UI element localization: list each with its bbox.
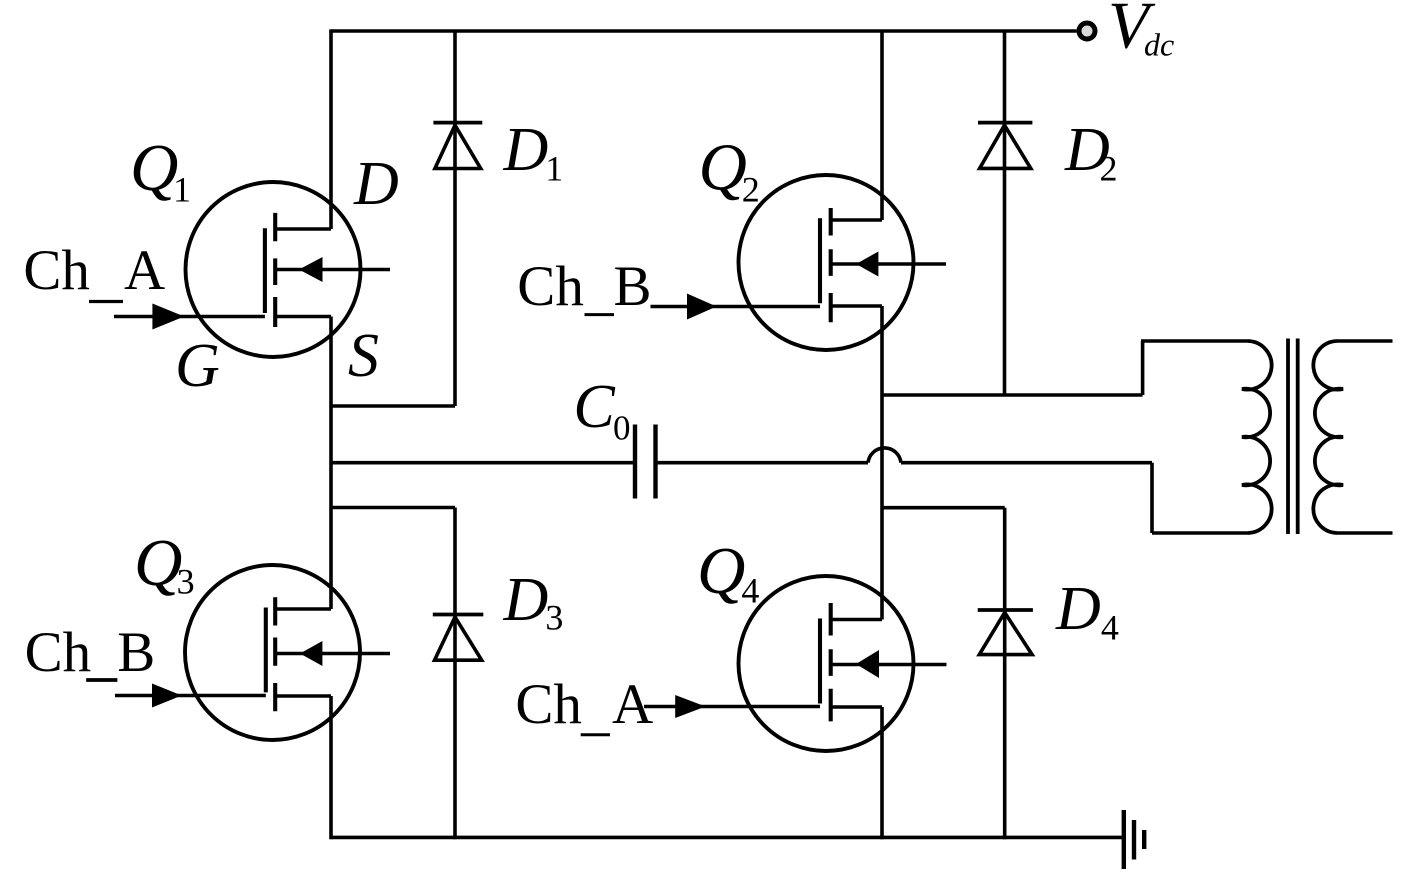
node label Ch_A bottom underscore — [581, 733, 610, 736]
diode D1 triangle — [435, 125, 481, 168]
arrow Ch_A input bottom — [675, 695, 705, 718]
wire bottom rail — [331, 836, 1124, 840]
ground bar 1 — [1122, 810, 1126, 869]
transformer secondary winding — [1313, 341, 1343, 533]
wire D2 branch — [1003, 31, 1007, 395]
wire Q1 gate lead Ch_A — [114, 315, 265, 319]
wire C0 left — [331, 461, 635, 465]
arrow Ch_A input — [152, 304, 184, 330]
svg-text:A: A — [124, 239, 165, 302]
transistor Q2 circle — [739, 175, 914, 350]
wire D3 branch — [453, 508, 457, 840]
transformer core line left — [1286, 339, 1290, 535]
transistor Q2 body lead — [831, 262, 946, 266]
svg-text:1: 1 — [545, 149, 563, 189]
wire left rail upper — [329, 29, 333, 229]
transistor Q2 drain lead — [831, 218, 882, 222]
ground bar 3 — [1142, 830, 1146, 849]
transistor Q2 body arrow — [856, 252, 878, 277]
svg-text:4: 4 — [741, 571, 759, 611]
diode D4 cathode bar — [978, 608, 1033, 612]
svg-text:2: 2 — [1100, 149, 1118, 189]
transistor Q4 source lead — [831, 705, 882, 709]
svg-text:4: 4 — [1101, 608, 1119, 648]
svg-text:D: D — [353, 150, 399, 218]
transistor Q2 gate bar — [818, 218, 822, 303]
wire secondary bottom lead — [1337, 531, 1393, 535]
wire upper output — [882, 393, 1143, 397]
diode D3 triangle — [435, 617, 482, 660]
ground bar 2 — [1132, 820, 1136, 860]
wire top rail — [331, 29, 1077, 33]
wire transformer bottom hook horizontal — [1152, 531, 1248, 535]
svg-text:D: D — [503, 566, 549, 634]
transformer core line right — [1296, 339, 1300, 535]
transistor Q3 drain lead — [275, 607, 331, 611]
node label Ch_A top underscore — [89, 300, 123, 303]
wire transformer top hook horizontal — [1141, 339, 1248, 343]
arrow Ch_B input bottom — [152, 684, 182, 708]
transformer primary winding — [1242, 341, 1272, 533]
arrow Ch_B input top — [687, 294, 717, 320]
node label Ch_B top underscore — [585, 313, 615, 316]
wire D1 branch — [453, 31, 457, 406]
diode D4 triangle — [979, 613, 1032, 655]
diode D1 cathode bar — [433, 121, 482, 125]
svg-text:Q: Q — [130, 131, 178, 205]
svg-text:Ch: Ch — [517, 255, 584, 318]
transistor Q3 body arrow — [300, 641, 322, 666]
diode D2 triangle — [980, 125, 1031, 168]
transistor Q4 body lead — [831, 663, 947, 667]
wire left rail lower — [329, 696, 333, 839]
svg-text:C: C — [573, 373, 615, 441]
wire Q3 gate lead Ch_B — [115, 694, 266, 698]
svg-text:D: D — [503, 116, 549, 184]
capacitor C0 left plate — [633, 425, 637, 499]
svg-text:Ch: Ch — [23, 239, 90, 302]
wire right rail middle — [880, 306, 884, 620]
svg-text:B: B — [614, 255, 652, 318]
svg-text:A: A — [612, 673, 653, 736]
transistor Q4 drain lead — [831, 618, 882, 622]
svg-text:3: 3 — [177, 562, 195, 602]
svg-text:Q: Q — [697, 534, 745, 608]
transistor Q1 channel dashes — [273, 213, 277, 327]
wire transformer bottom hook vertical — [1150, 463, 1154, 533]
transistor Q4 body arrow — [856, 650, 879, 678]
wire Q2 gate lead Ch_B — [651, 305, 821, 309]
diode D2 cathode bar — [978, 121, 1032, 125]
node label Ch_B bottom underscore — [86, 678, 117, 682]
transistor Q1 source lead — [275, 315, 331, 319]
wire D4 branch — [1003, 508, 1007, 840]
svg-text:0: 0 — [613, 409, 631, 448]
transistor Q1 body lead — [275, 268, 390, 272]
wire hop over right rail — [868, 448, 901, 463]
svg-text:3: 3 — [545, 598, 563, 638]
wire transformer top hook vertical — [1141, 341, 1145, 395]
svg-text:2: 2 — [742, 170, 760, 210]
svg-text:Ch: Ch — [515, 673, 582, 736]
transistor Q3 circle — [185, 565, 360, 740]
wire C0 right — [656, 461, 869, 465]
diode D3 cathode bar — [433, 613, 484, 617]
svg-text:dc: dc — [1144, 27, 1174, 63]
transistor Q3 channel dashes — [273, 597, 277, 711]
svg-text:1: 1 — [173, 170, 191, 210]
transistor Q4 gate bar — [818, 619, 822, 704]
terminal Vdc — [1079, 23, 1095, 39]
svg-text:Q: Q — [134, 526, 182, 600]
wire D3 top connect — [331, 506, 455, 510]
transistor Q4 channel dashes — [829, 603, 833, 721]
wire Q4 gate lead Ch_A — [644, 705, 820, 709]
svg-text:S: S — [348, 322, 379, 390]
svg-text:Ch: Ch — [25, 621, 92, 684]
wire lower output — [901, 461, 1152, 465]
wire right rail lower — [880, 707, 884, 839]
wire secondary top lead — [1337, 339, 1393, 343]
svg-text:G: G — [175, 332, 220, 400]
transistor Q3 gate bar — [264, 608, 268, 693]
wire left rail middle — [329, 317, 333, 610]
svg-text:B: B — [117, 621, 155, 684]
transistor Q2 channel dashes — [829, 208, 833, 322]
transistor Q4 circle — [739, 576, 914, 751]
transistor Q3 body lead — [275, 652, 390, 656]
capacitor C0 right plate — [653, 425, 657, 499]
svg-text:D: D — [1055, 575, 1101, 643]
transistor Q3 source lead — [275, 694, 331, 698]
transistor Q2 source lead — [831, 304, 882, 308]
svg-text:Q: Q — [699, 131, 747, 205]
transistor Q1 gate bar — [263, 228, 267, 313]
wire node A horizontal — [331, 404, 455, 408]
wire D4 top connect — [882, 506, 1005, 510]
transistor Q1 circle — [186, 182, 361, 357]
transistor Q1 body arrow — [299, 257, 323, 282]
wire right rail upper — [880, 31, 884, 220]
transistor Q1 drain lead — [275, 227, 331, 231]
